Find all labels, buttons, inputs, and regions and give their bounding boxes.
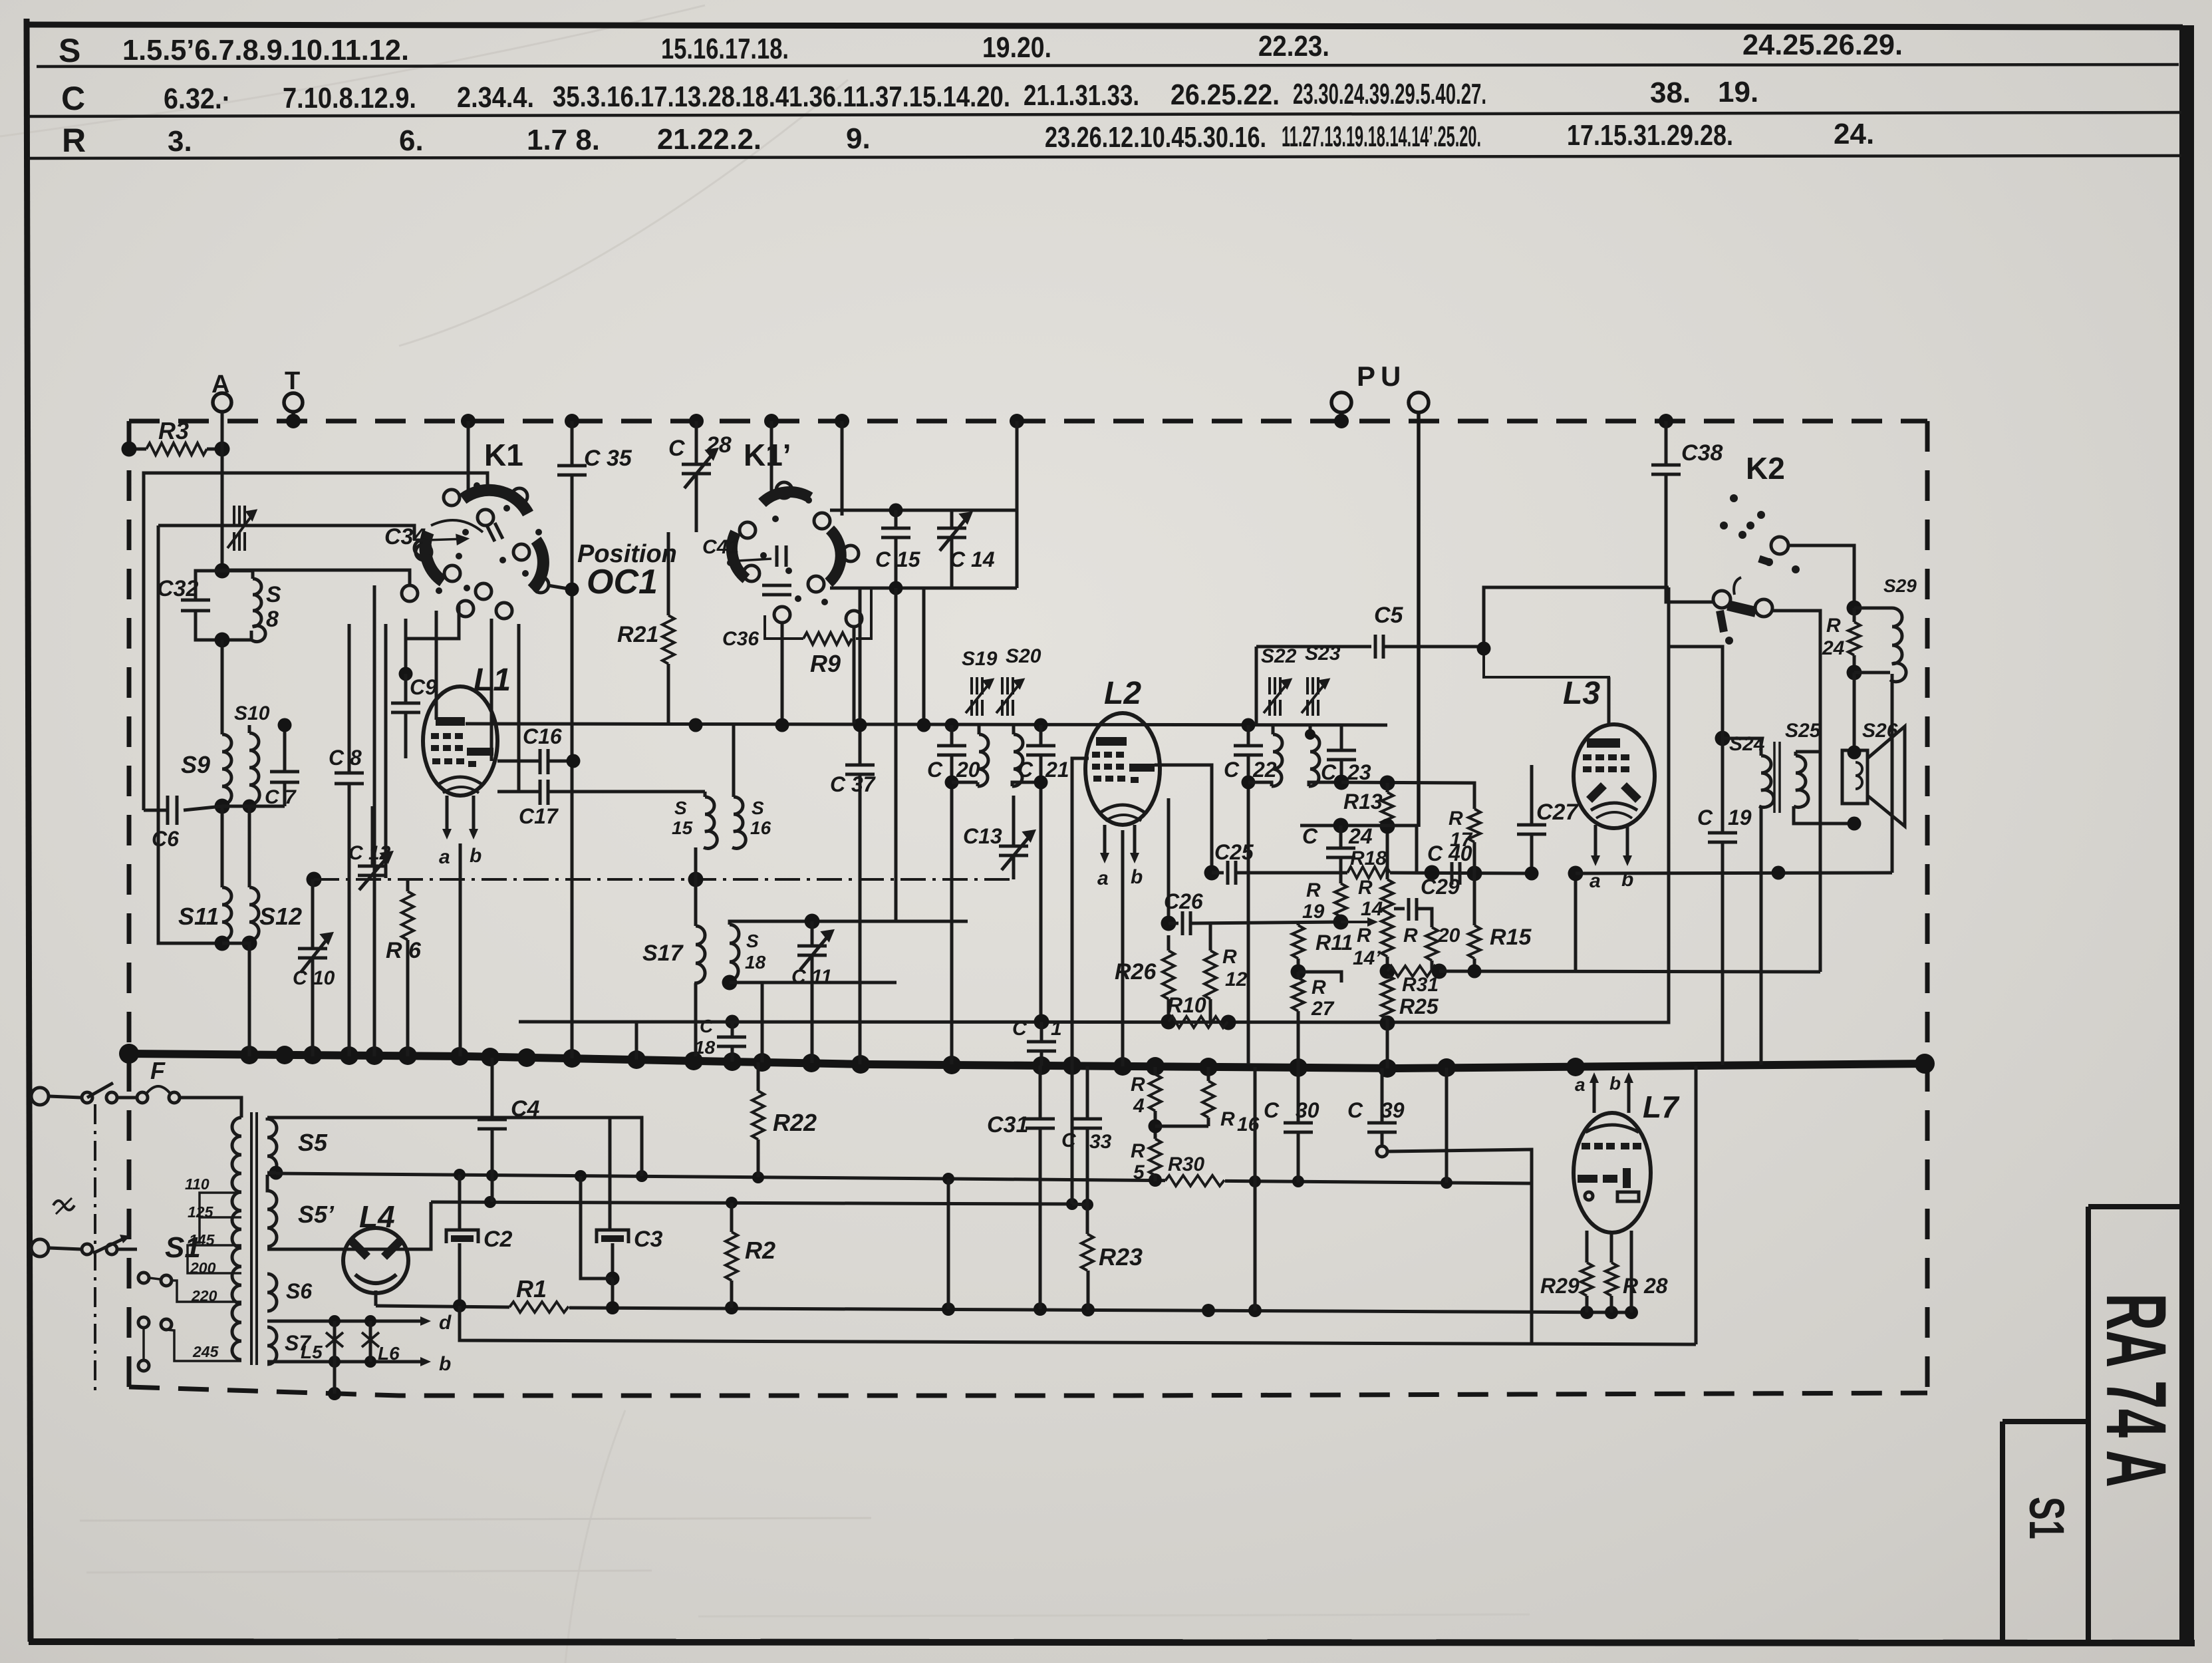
svg-text:T: T — [285, 367, 300, 395]
mains terminal top — [31, 1088, 49, 1105]
K2 rotor arm — [1728, 605, 1756, 612]
tube L1 — [423, 663, 511, 1056]
svg-text:S: S — [746, 931, 759, 951]
capacitor C8 — [329, 624, 364, 1056]
svg-text:19: 19 — [1302, 901, 1325, 923]
svg-text:R: R — [1131, 1140, 1145, 1162]
svg-text:35.3.16.17.13.28.18.41.36.11.3: 35.3.16.17.13.28.18.41.36.11.37.15.14.20… — [553, 80, 1010, 113]
tube L7 — [1574, 1072, 1680, 1233]
L2 cathode arrows a b — [1103, 825, 1107, 857]
resistor R26 — [1115, 935, 1175, 1022]
tube L4 — [343, 1199, 408, 1306]
fuse F — [117, 1057, 241, 1118]
svg-text:C: C — [1012, 1018, 1028, 1040]
mains switch top — [82, 1092, 92, 1103]
wire S18 top run — [765, 920, 968, 923]
svg-text:C 8: C 8 — [329, 746, 362, 770]
wire K1 contact drops — [384, 624, 388, 878]
coil S15 — [672, 792, 717, 848]
svg-text:C: C — [1697, 806, 1713, 830]
svg-text:R3: R3 — [158, 417, 189, 444]
svg-text:21: 21 — [1045, 758, 1069, 782]
svg-text:C: C — [1018, 758, 1034, 782]
mains switch bottom — [82, 1244, 92, 1255]
svg-text:C: C — [700, 1016, 714, 1036]
wire K2 feed loop — [1484, 587, 1669, 649]
svg-text:C2: C2 — [484, 1227, 513, 1252]
L3 cathode arrows a b — [1594, 825, 1597, 859]
svg-text:C 35: C 35 — [584, 446, 632, 471]
resistor R13 — [1343, 776, 1395, 878]
resistor R3 — [122, 417, 230, 457]
resistor R29 — [1540, 1231, 1593, 1312]
secondary coil S5' — [267, 1175, 335, 1247]
coil S12 — [248, 806, 302, 941]
return wire lower — [460, 1306, 1696, 1344]
svg-text:a: a — [1097, 867, 1109, 889]
svg-text:18: 18 — [745, 952, 766, 973]
terminal T — [284, 393, 303, 412]
wire S18 bottom drops — [761, 983, 764, 1062]
wire K1' cap box top — [830, 509, 1017, 512]
vertical riser mid — [1254, 1067, 1257, 1310]
svg-text:S12: S12 — [259, 903, 302, 930]
wire S15 down / S17 — [688, 872, 704, 887]
tube L2 — [1085, 676, 1160, 1066]
svg-text:14: 14 — [1361, 898, 1383, 920]
svg-text:a: a — [1575, 1074, 1586, 1095]
svg-text:S: S — [674, 798, 687, 818]
wire C23 node row — [1341, 782, 1474, 809]
svg-text:K1: K1 — [484, 438, 523, 472]
pilot lamp wires — [267, 1312, 452, 1400]
loudspeaker S26 — [1842, 720, 1905, 831]
svg-text:14’: 14’ — [1353, 947, 1381, 969]
variable capacitor C11 — [791, 914, 832, 988]
bottom page border — [29, 1642, 2195, 1643]
coil IF2 secondary — [1309, 734, 1319, 786]
svg-text:8: 8 — [266, 607, 279, 632]
trimmer S22 — [1261, 645, 1297, 716]
svg-text:9.: 9. — [846, 122, 871, 155]
resistor R14' — [1353, 913, 1393, 971]
svg-text:24: 24 — [1822, 637, 1845, 659]
svg-text:4: 4 — [1133, 1095, 1145, 1117]
capacitor C27 — [1517, 765, 1579, 881]
svg-text:R18: R18 — [1350, 847, 1387, 869]
wire K1 feed — [373, 585, 376, 1056]
pilot lamp L5 — [333, 1321, 337, 1362]
wire second pickup loop — [158, 526, 222, 943]
svg-text:R25: R25 — [1399, 994, 1439, 1018]
svg-text:33: 33 — [1089, 1131, 1112, 1153]
wire K1 left horizontals — [222, 570, 410, 585]
resistor R15 — [1468, 873, 1532, 979]
svg-text:R: R — [1403, 925, 1418, 947]
svg-text:20: 20 — [956, 758, 980, 782]
capacitor C34 — [431, 520, 483, 532]
capacitor C38 — [1651, 421, 1723, 602]
svg-text:S29: S29 — [1883, 575, 1917, 596]
resistor R19 — [1302, 879, 1349, 930]
svg-text:2.34.4.: 2.34.4. — [457, 81, 534, 114]
wire L2 grid to C26 — [1167, 798, 1171, 923]
svg-text:d: d — [439, 1312, 452, 1334]
capacitor C19 — [1669, 647, 1752, 1065]
wire C39 to L7 box — [1387, 1149, 1532, 1343]
svg-text:R: R — [1131, 1074, 1145, 1096]
svg-text:R26: R26 — [1115, 959, 1157, 984]
coil S8 — [222, 571, 281, 642]
thin bias wire above bus — [519, 587, 1669, 1022]
svg-text:S10: S10 — [234, 702, 270, 724]
node S11/S12 bottom — [215, 936, 230, 951]
wire riser to bus — [1072, 758, 1089, 1204]
secondary coil S5 — [267, 1118, 328, 1175]
svg-text:17: 17 — [1450, 829, 1473, 851]
resistor R28 — [1605, 1232, 1668, 1312]
svg-text:S: S — [752, 798, 764, 818]
resistor R20 — [1403, 925, 1460, 971]
svg-text:15: 15 — [672, 818, 693, 838]
svg-text:23.30.24.39.29.5.40.27.: 23.30.24.39.29.5.40.27. — [1293, 78, 1486, 110]
svg-text:C34: C34 — [384, 524, 426, 549]
svg-text:C29: C29 — [1421, 875, 1460, 899]
variable capacitor C14 — [937, 510, 995, 588]
tap selector circles — [138, 1273, 172, 1371]
resistor R9 — [765, 615, 803, 639]
svg-text:R9: R9 — [810, 650, 841, 677]
wire antenna column — [221, 412, 224, 571]
svg-text:R21: R21 — [617, 622, 658, 647]
svg-text:30: 30 — [1296, 1098, 1319, 1122]
junction dots on dashed top border — [286, 414, 1673, 428]
svg-text:24.25.26.29.: 24.25.26.29. — [1742, 29, 1903, 61]
capacitor C9 — [391, 667, 437, 759]
svg-text:S1: S1 — [2019, 1497, 2074, 1539]
svg-text:17.15.31.29.28.: 17.15.31.29.28. — [1567, 119, 1733, 152]
svg-text:R29: R29 — [1540, 1274, 1580, 1298]
svg-text:3.: 3. — [168, 125, 192, 158]
wire C24 row — [1300, 826, 1417, 872]
left page border — [27, 19, 31, 1642]
svg-text:R: R — [62, 122, 86, 159]
resistor R27 — [1292, 972, 1335, 1068]
svg-text:C13: C13 — [963, 824, 1002, 848]
resistor R22 — [752, 1062, 817, 1177]
svg-text:15.16.17.18.: 15.16.17.18. — [661, 33, 789, 65]
svg-text:R: R — [1358, 877, 1373, 899]
svg-text:C36: C36 — [722, 628, 759, 650]
svg-text:C17: C17 — [519, 804, 559, 828]
svg-text:A: A — [211, 371, 229, 398]
coil S29 — [1854, 575, 1917, 682]
wire S5 top run — [273, 1118, 642, 1176]
wires K1 to L1 — [406, 605, 459, 674]
svg-text:K1’: K1’ — [744, 438, 791, 472]
svg-text:C26: C26 — [1164, 889, 1203, 913]
node S9/S10 bottom — [215, 799, 230, 814]
svg-text:C 14: C 14 — [950, 547, 995, 571]
capacitor C23 — [1321, 725, 1371, 790]
svg-text:L7: L7 — [1643, 1090, 1680, 1124]
capacitor C22 — [1224, 718, 1277, 1065]
svg-text:C32: C32 — [157, 576, 198, 601]
svg-text:19: 19 — [1728, 806, 1752, 830]
terminal A — [213, 393, 231, 412]
capacitor C15 — [875, 504, 921, 922]
svg-text:245: 245 — [192, 1343, 219, 1360]
resistor R25 — [1381, 975, 1439, 1068]
svg-text:18: 18 — [694, 1037, 716, 1058]
resistor R21 — [617, 532, 674, 725]
transformer core — [250, 1112, 253, 1365]
variable capacitor C13 — [963, 796, 1034, 879]
svg-text:S1: S1 — [165, 1231, 201, 1264]
capacitor C26 — [1161, 889, 1341, 935]
wire K1' cap box bottom — [830, 587, 1017, 590]
svg-text:C3: C3 — [634, 1227, 663, 1252]
svg-text:L5: L5 — [301, 1342, 323, 1362]
capacitor C30 — [1264, 1068, 1319, 1183]
heater distribution wire — [431, 1202, 1072, 1204]
svg-text:C 15: C 15 — [875, 547, 921, 571]
svg-text:S: S — [59, 32, 80, 69]
wire down to S9 — [221, 640, 224, 734]
capacitor C35 — [548, 421, 632, 1058]
svg-text:11.27.13.19.18.14.14’.25.20.: 11.27.13.19.18.14.14’.25.20. — [1282, 120, 1481, 153]
capacitor C32 — [157, 571, 222, 640]
tube L3 — [1563, 676, 1655, 892]
coil S18 — [728, 921, 766, 981]
svg-text:C9: C9 — [410, 675, 437, 699]
svg-text:R13: R13 — [1343, 790, 1383, 814]
svg-text:C: C — [927, 758, 943, 782]
coil IF1 primary — [978, 734, 988, 786]
svg-text:28: 28 — [706, 432, 732, 458]
bus junction dots — [119, 1044, 1935, 1078]
wire R31 to anode riser — [1439, 971, 1820, 972]
header rule under row S — [37, 65, 2179, 67]
svg-text:S11: S11 — [178, 903, 219, 930]
main LT wire — [569, 1308, 1633, 1312]
wire S5' bottom run — [267, 1202, 431, 1249]
svg-text:R 6: R 6 — [386, 938, 422, 963]
svg-text:F: F — [150, 1057, 166, 1084]
svg-text:b: b — [470, 845, 482, 867]
capacitor C6 — [144, 473, 487, 851]
svg-text:S9: S9 — [181, 751, 210, 778]
capacitor C2 (electrolytic) — [446, 1175, 513, 1306]
K1' contact circles — [776, 482, 792, 498]
svg-text:C 37: C 37 — [830, 772, 877, 796]
svg-text:C: C — [1224, 758, 1240, 782]
K1 rotor arcs — [463, 490, 528, 514]
svg-text:OC1: OC1 — [587, 563, 658, 601]
wire R11 box — [1298, 972, 1341, 983]
svg-text:S5: S5 — [298, 1129, 328, 1156]
capacitor C4 — [478, 1058, 540, 1202]
header rule under row R — [28, 156, 2181, 158]
resistor R30 inline — [1165, 1153, 1225, 1187]
header rule under row C — [28, 112, 2181, 116]
resistor R14 — [1358, 877, 1393, 920]
svg-text:1: 1 — [1051, 1018, 1062, 1040]
trimmer S19 — [962, 648, 998, 716]
svg-text:S5’: S5’ — [298, 1201, 335, 1228]
svg-text:R: R — [1357, 925, 1371, 947]
transformer primary coil — [232, 1118, 241, 1360]
svg-text:C: C — [1061, 1130, 1077, 1151]
svg-text:C16: C16 — [523, 724, 562, 748]
heater wire S5/S5' junction — [269, 1166, 283, 1180]
svg-text:6.: 6. — [399, 124, 424, 157]
K1 contact circles — [444, 490, 460, 506]
capacitor C39 — [1347, 1068, 1405, 1157]
wire K1 top feed — [467, 421, 470, 492]
resistor R2 — [726, 1203, 775, 1308]
wire K2 lower to transformer — [1772, 611, 1820, 972]
svg-text:R 28: R 28 — [1623, 1274, 1668, 1298]
mains terminal bottom — [31, 1239, 49, 1257]
resistor R11 — [1291, 922, 1353, 980]
svg-text:20: 20 — [1437, 925, 1460, 947]
K1' rotor arcs — [762, 492, 810, 503]
dash-dot mains boundary — [94, 1104, 96, 1392]
svg-text:L6: L6 — [378, 1343, 400, 1364]
output transformer S25 — [1785, 720, 1854, 824]
svg-text:27: 27 — [1311, 998, 1335, 1020]
resistor R4 — [1131, 1067, 1161, 1139]
svg-text:C31: C31 — [987, 1112, 1028, 1137]
svg-text:C: C — [1302, 824, 1318, 848]
svg-text:R: R — [1222, 946, 1237, 968]
svg-text:S17: S17 — [642, 941, 684, 966]
svg-text:R22: R22 — [773, 1109, 817, 1136]
node antenna block top — [215, 563, 230, 579]
capacitor C40 — [1427, 841, 1482, 885]
svg-text:R10: R10 — [1167, 993, 1206, 1017]
svg-text:38.: 38. — [1650, 76, 1691, 109]
switch K1' — [702, 421, 871, 677]
svg-text:R11: R11 — [1315, 931, 1353, 955]
capacitor C37 — [830, 588, 877, 1064]
svg-text:6.32.·: 6.32.· — [164, 82, 231, 115]
svg-text:1.7 8.: 1.7 8. — [527, 124, 600, 156]
coil S16 — [732, 725, 771, 848]
svg-text:125: 125 — [188, 1203, 214, 1221]
svg-text:23.26.12.10.45.30.16.: 23.26.12.10.45.30.16. — [1045, 121, 1266, 154]
svg-text:26.25.22.: 26.25.22. — [1171, 78, 1280, 111]
capacitor C1 — [1012, 1018, 1062, 1066]
variable capacitor C28 — [668, 421, 732, 532]
svg-text:R: R — [1449, 808, 1463, 830]
secondary coil S7 — [267, 1327, 312, 1364]
svg-text:C41: C41 — [702, 536, 739, 558]
capacitor C5 — [1256, 603, 1484, 725]
svg-text:7.10.8.12.9.: 7.10.8.12.9. — [283, 82, 416, 114]
svg-text:C: C — [668, 436, 685, 461]
AC symbol — [53, 1201, 74, 1210]
capacitor C33 — [1061, 1066, 1112, 1234]
svg-text:24: 24 — [1348, 824, 1373, 848]
transformer core — [1773, 742, 1776, 813]
dashed bottom border — [129, 1387, 1927, 1396]
svg-text:C: C — [61, 80, 85, 117]
variable capacitor C12 — [348, 806, 391, 890]
svg-text:S19: S19 — [962, 648, 998, 670]
resistor R10 on bias wire — [1167, 993, 1228, 1028]
dashed right border — [1925, 421, 1930, 1394]
svg-text:21.1.31.33.: 21.1.31.33. — [1024, 79, 1139, 112]
svg-text:24.: 24. — [1834, 118, 1874, 150]
svg-text:S20: S20 — [1006, 645, 1041, 667]
right page border — [2179, 25, 2194, 1646]
top page border — [27, 25, 2183, 27]
trimmer S13 — [227, 506, 255, 551]
terminal PU right — [1409, 392, 1429, 412]
svg-text:C: C — [1264, 1098, 1280, 1122]
svg-text:S: S — [266, 582, 281, 607]
svg-text:19.20.: 19.20. — [982, 31, 1051, 64]
svg-text:C4: C4 — [511, 1096, 540, 1122]
svg-text:39: 39 — [1381, 1098, 1405, 1122]
svg-text:L3: L3 — [1563, 676, 1600, 711]
svg-text:RA 74 A: RA 74 A — [2088, 1293, 2183, 1487]
dash-dot AVC wire — [314, 878, 1014, 881]
coil IF1 secondary — [1012, 734, 1023, 786]
svg-text:19.: 19. — [1718, 76, 1758, 108]
capacitor C24 — [1302, 824, 1373, 883]
coil S11 — [178, 806, 231, 941]
K1' feed wires from chassis — [770, 421, 773, 496]
svg-text:PU: PU — [1357, 361, 1406, 392]
capacitor C18 — [694, 1015, 746, 1062]
svg-text:L2: L2 — [1104, 676, 1141, 711]
wire PU left to chassis — [1339, 412, 1343, 423]
tap ladder wires — [144, 1193, 241, 1361]
svg-text:a: a — [439, 846, 450, 868]
capacitor C29 — [1394, 875, 1460, 927]
svg-text:b: b — [1609, 1073, 1621, 1094]
long heater wire — [276, 1173, 1532, 1183]
svg-text:C27: C27 — [1536, 800, 1579, 825]
svg-text:21.22.2.: 21.22.2. — [657, 123, 761, 156]
svg-text:110: 110 — [185, 1175, 209, 1193]
svg-text:C 7: C 7 — [265, 786, 297, 808]
secondary coil S6 — [267, 1274, 312, 1311]
capacitor C17 — [497, 780, 705, 828]
capacitor C3 (electrolytic) — [581, 1118, 663, 1306]
wire S18 bottom to C11 — [730, 981, 897, 984]
trimmer S20 — [996, 645, 1041, 716]
anode feed wire with R18 — [1267, 847, 1532, 881]
resistor R31 — [1380, 964, 1447, 996]
svg-text:R2: R2 — [745, 1237, 775, 1264]
switch K1 — [158, 421, 549, 619]
svg-text:220: 220 — [191, 1287, 217, 1304]
K2 contact circles — [1771, 537, 1788, 554]
svg-text:b: b — [1131, 866, 1143, 888]
svg-text:R: R — [1312, 977, 1326, 998]
svg-text:R: R — [1220, 1108, 1235, 1130]
capacitor C25 — [1204, 840, 1268, 885]
ground bus wire — [129, 1054, 1927, 1068]
resistor R5 — [1131, 1139, 1161, 1183]
L7 third pin — [1630, 1231, 1633, 1312]
svg-text:S6: S6 — [286, 1279, 312, 1303]
wire K2 to R24 — [1788, 545, 1854, 608]
